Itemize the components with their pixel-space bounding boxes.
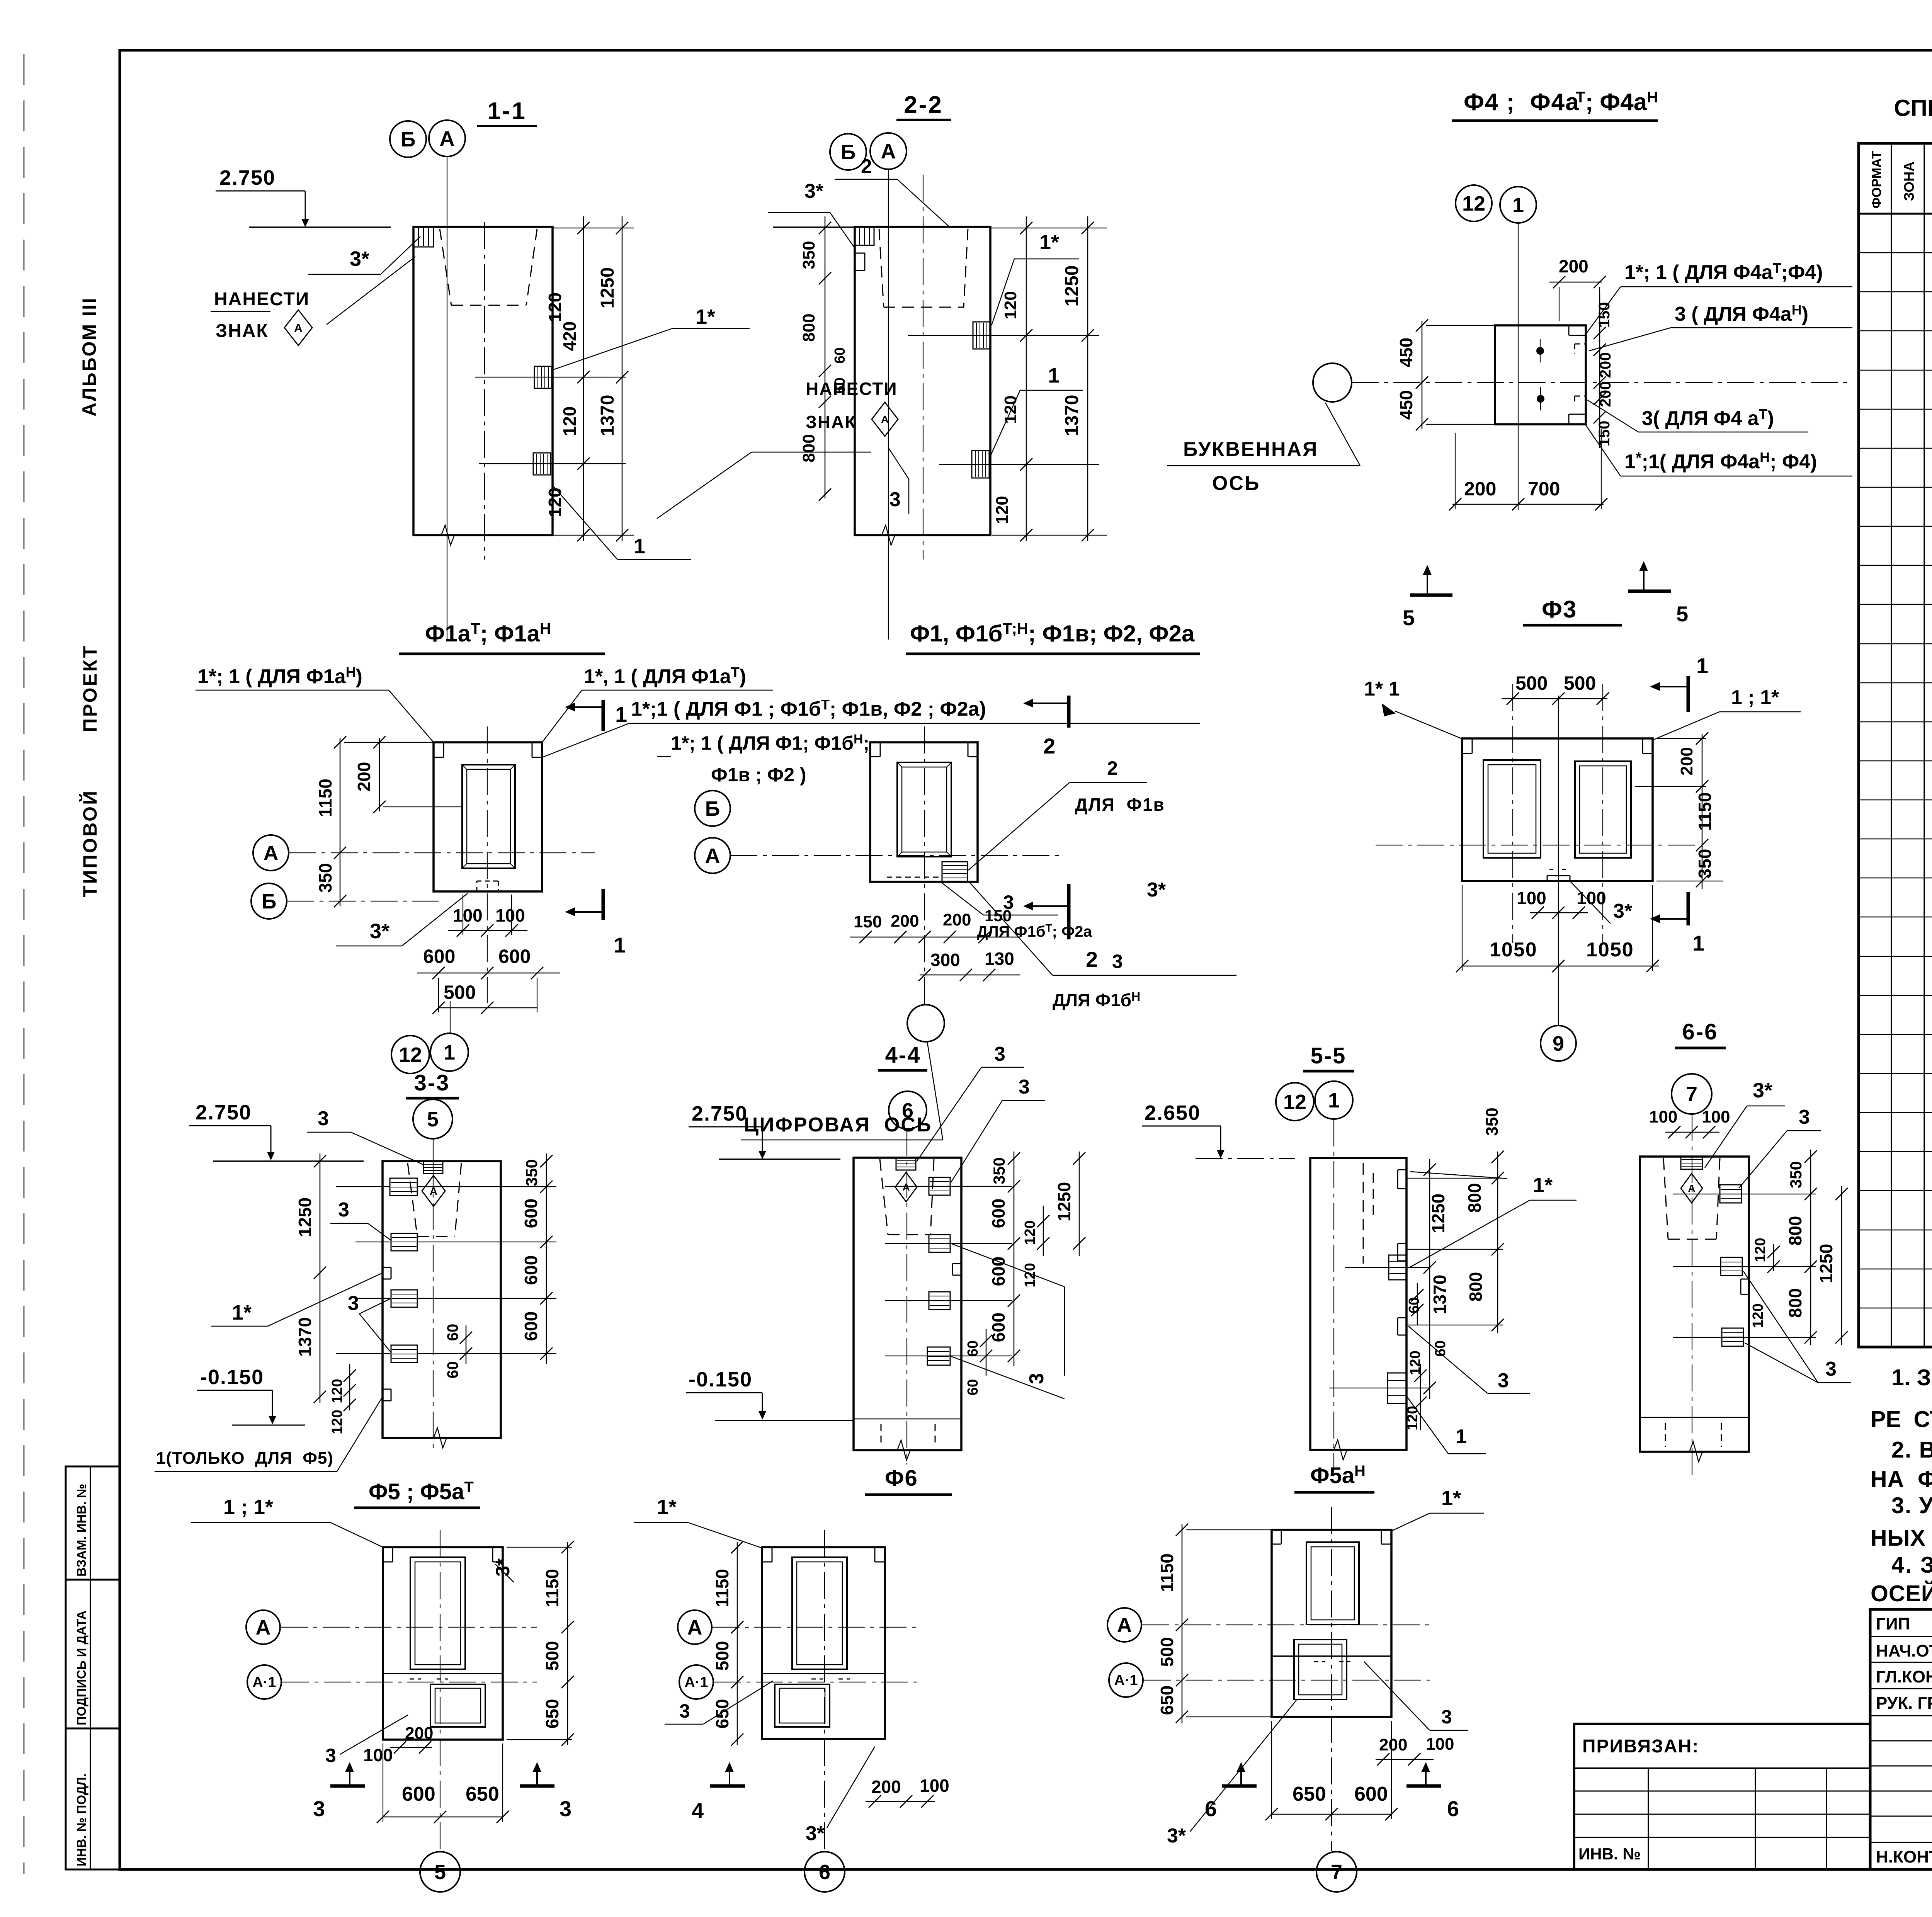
letter axis line (2-2) bbox=[888, 169, 889, 640]
svg-text:ОСЬ: ОСЬ bbox=[1212, 472, 1260, 495]
svg-text:200: 200 bbox=[871, 1777, 901, 1797]
svg-text:1 ; 1*: 1 ; 1* bbox=[1731, 686, 1779, 709]
svg-text:800: 800 bbox=[799, 313, 818, 342]
break squiggle (5-5) bbox=[1325, 1440, 1356, 1460]
svg-text:600: 600 bbox=[988, 1199, 1009, 1228]
plan Ф4 dashed edge marks bbox=[1575, 344, 1586, 345]
svg-text:1(ТОЛЬКО ДЛЯ Ф5): 1(ТОЛЬКО ДЛЯ Ф5) bbox=[156, 1449, 333, 1468]
plan Ф5ан centerline bbox=[1331, 1507, 1332, 1851]
sidebar box Инв.№ подл. bbox=[66, 1728, 120, 1869]
title block staff row bbox=[1870, 1740, 1932, 1742]
spec table row line 21 bbox=[1859, 1034, 1932, 1035]
svg-text:1*: 1* bbox=[657, 1495, 677, 1519]
svg-text:А·1: А·1 bbox=[1114, 1672, 1138, 1689]
axis circle А (plan2) bbox=[695, 838, 730, 873]
left dims (plan1) bbox=[340, 738, 341, 906]
svg-text:500: 500 bbox=[444, 981, 476, 1003]
svg-text:120: 120 bbox=[1001, 395, 1020, 424]
spec table row line 6 bbox=[1859, 448, 1932, 449]
plan Ф5ан divider bbox=[1272, 1655, 1391, 1657]
svg-text:3: 3 bbox=[325, 1745, 336, 1766]
axis circle 5 (3-3) bbox=[413, 1099, 452, 1139]
numeric axis line (2-2) bbox=[923, 175, 923, 560]
svg-text:600: 600 bbox=[498, 946, 531, 967]
svg-text:Ф4 ; Ф4а: Ф4 ; Ф4а bbox=[1464, 89, 1580, 116]
svg-text:1150: 1150 bbox=[315, 779, 335, 817]
spec table row line 24 bbox=[1859, 1151, 1932, 1152]
svg-text:НАНЕСТИ: НАНЕСТИ bbox=[214, 289, 310, 310]
svg-text:120: 120 bbox=[1405, 1406, 1421, 1430]
svg-text:ЗОНА: ЗОНА bbox=[1901, 162, 1917, 201]
привязан row bbox=[1574, 1837, 1870, 1838]
svg-text:350: 350 bbox=[315, 863, 335, 893]
plan Ф4 outline bbox=[1495, 325, 1586, 424]
svg-text:1*; 1 ( ДЛЯ Ф1аН): 1*; 1 ( ДЛЯ Ф1аН) bbox=[197, 664, 362, 688]
axis circle Б (section 1-1) bbox=[390, 121, 426, 157]
plan Ф5 divider bbox=[383, 1673, 503, 1674]
spec table row line 15 bbox=[1859, 799, 1932, 801]
svg-text:150: 150 bbox=[1596, 421, 1613, 447]
svg-text:1. ЗАКЛАДНЫЕ, ОТМЕЧЕННЫЕ ЗНАКО: 1. ЗАКЛАДНЫЕ, ОТМЕЧЕННЫЕ ЗНАКОМ ,* ПРИВА… bbox=[1891, 1365, 1932, 1390]
svg-text:350: 350 bbox=[799, 241, 818, 269]
edge notch (6-6) bbox=[1741, 1279, 1749, 1280]
spec table outer border bbox=[1859, 143, 1932, 1347]
section marks 2 (plan2 right) bbox=[1023, 696, 1069, 758]
plan Ф6 cup2 outer bbox=[775, 1684, 830, 1727]
left trim dash-dot line bbox=[24, 54, 25, 1874]
spec table row line 20 bbox=[1859, 995, 1932, 996]
title block staff row bbox=[1870, 1715, 1932, 1716]
svg-text:1: 1 bbox=[1048, 364, 1060, 387]
axis circle А-1 (Ф5ан) bbox=[1109, 1663, 1143, 1697]
svg-text:3*: 3* bbox=[1753, 1079, 1772, 1102]
spec table row line 11 bbox=[1859, 643, 1932, 645]
ground dash line (5-5) bbox=[1196, 1158, 1295, 1159]
svg-text:Б: Б bbox=[705, 797, 720, 820]
svg-text:5: 5 bbox=[427, 1108, 439, 1131]
svg-text:600: 600 bbox=[988, 1313, 1009, 1342]
column outline (3-3) bbox=[383, 1161, 501, 1438]
svg-text:1: 1 bbox=[1328, 1089, 1340, 1112]
svg-text:Б: Б bbox=[401, 128, 416, 151]
spec table row line 12 bbox=[1859, 682, 1932, 684]
svg-text:3*: 3* bbox=[1147, 879, 1166, 901]
axis circle А (2-2) bbox=[870, 133, 906, 169]
svg-text:6: 6 bbox=[902, 1099, 913, 1122]
svg-text:800: 800 bbox=[1785, 1288, 1805, 1318]
svg-text:500: 500 bbox=[1515, 672, 1548, 694]
svg-text:650: 650 bbox=[542, 1699, 562, 1729]
svg-text:6: 6 bbox=[1447, 1796, 1459, 1821]
svg-text:1*;1( ДЛЯ Ф4аН; Ф4): 1*;1( ДЛЯ Ф4аН; Ф4) bbox=[1624, 449, 1817, 473]
outer dim 1250 (4-4) bbox=[1079, 1152, 1080, 1256]
svg-text:1370: 1370 bbox=[597, 395, 618, 436]
plan Ф6 divider bbox=[762, 1673, 885, 1674]
letter axis circle (Ф4) bbox=[1313, 363, 1352, 402]
svg-text:ФОРМАТ: ФОРМАТ bbox=[1869, 151, 1884, 209]
dim 60/60 (4-4) bbox=[986, 1329, 987, 1376]
section mark 6 left (Ф5ан) bbox=[1205, 1762, 1257, 1821]
svg-text:ТИПОВОЙ: ТИПОВОЙ bbox=[79, 789, 101, 897]
svg-text:3*: 3* bbox=[370, 920, 389, 943]
edge notches (5-5) bbox=[1398, 1169, 1406, 1170]
axis circle 7 (6-6) bbox=[1672, 1074, 1712, 1114]
svg-text:3-3: 3-3 bbox=[414, 1070, 450, 1095]
svg-text:А: А bbox=[256, 1616, 271, 1639]
plan 2 embedded plate (Ф1в) bbox=[942, 862, 968, 882]
dimension line inner (1-1) bbox=[583, 216, 584, 541]
svg-text:12: 12 bbox=[1283, 1090, 1306, 1114]
plan 1 corner notches bbox=[434, 757, 444, 758]
svg-text:ПРОЕКТ: ПРОЕКТ bbox=[79, 645, 101, 732]
plan 2 corner notches bbox=[870, 756, 880, 757]
svg-text:500: 500 bbox=[1157, 1637, 1177, 1667]
axis line (4-4) bbox=[906, 1129, 907, 1465]
axis line (6-6) bbox=[1692, 1114, 1692, 1480]
svg-text:Б: Б bbox=[262, 890, 277, 913]
plan Ф5 centerline bbox=[440, 1530, 440, 1851]
svg-text:120: 120 bbox=[545, 488, 565, 517]
svg-text:А: А bbox=[294, 322, 303, 335]
svg-text:НА ФУНДАМЕНТЫ ДАНА: НА ФУНДАМЕНТЫ ДАНА НА ЛИСТЕ 12 . bbox=[1871, 1466, 1932, 1492]
spec table row line 4 bbox=[1859, 370, 1932, 371]
svg-text:3: 3 bbox=[1003, 891, 1014, 913]
svg-text:5: 5 bbox=[434, 1861, 446, 1884]
svg-text:1050: 1050 bbox=[1586, 939, 1634, 961]
plan 2 centerline bbox=[924, 726, 925, 1005]
axis circle 9 (Ф3) bbox=[1541, 1026, 1576, 1061]
svg-text:9: 9 bbox=[1553, 1032, 1564, 1055]
plan Ф4 anchor dots bbox=[1536, 347, 1544, 355]
break squiggle (2-2) bbox=[873, 525, 904, 545]
svg-text:3: 3 bbox=[679, 1700, 690, 1722]
dim line right (4-4) bbox=[1014, 1152, 1015, 1366]
svg-text:1*: 1* bbox=[1039, 231, 1059, 254]
plate extensions (3-3) bbox=[336, 1186, 390, 1187]
svg-text:500: 500 bbox=[1564, 672, 1596, 694]
dashed marks right top (5-5) bbox=[1373, 1173, 1374, 1221]
svg-text:420: 420 bbox=[560, 321, 580, 351]
break squiggle (1-1) bbox=[433, 525, 464, 545]
svg-text:7: 7 bbox=[1331, 1861, 1342, 1884]
svg-text:200: 200 bbox=[1464, 478, 1496, 500]
svg-text:120: 120 bbox=[545, 293, 565, 322]
plan 2 axis А horizontal bbox=[730, 855, 1059, 856]
corner plate (2-2) bbox=[855, 227, 874, 245]
привязан row bbox=[1574, 1791, 1870, 1792]
svg-text:2-2: 2-2 bbox=[904, 92, 943, 118]
svg-text:100: 100 bbox=[495, 905, 525, 925]
svg-text:120: 120 bbox=[1022, 1220, 1038, 1245]
svg-text:3: 3 bbox=[889, 488, 901, 511]
plan Ф5 cup1 outer bbox=[410, 1557, 465, 1669]
svg-text:Ф1в ; Ф2 ): Ф1в ; Ф2 ) bbox=[711, 764, 806, 786]
spec table row line 28 bbox=[1859, 1308, 1932, 1309]
axis circle 1 (5-5) bbox=[1315, 1081, 1353, 1119]
axis А horizontal (plan1) bbox=[289, 852, 595, 853]
svg-text:1: 1 bbox=[1456, 1425, 1467, 1448]
svg-text:120: 120 bbox=[329, 1379, 345, 1403]
title block staff row bbox=[1870, 1842, 1932, 1843]
svg-text:7: 7 bbox=[1686, 1083, 1697, 1106]
svg-text:3: 3 bbox=[313, 1796, 325, 1821]
plate extensions (5-5) bbox=[1345, 1267, 1430, 1268]
inner dim line right (2-2) bbox=[1026, 216, 1027, 541]
svg-text:3*: 3* bbox=[492, 1558, 514, 1577]
svg-text:60: 60 bbox=[832, 378, 848, 394]
svg-text:ДЛЯ Ф1бТ; Ф2а: ДЛЯ Ф1бТ; Ф2а bbox=[977, 922, 1092, 940]
svg-text:650: 650 bbox=[1293, 1783, 1326, 1805]
embedded plate 1 (2-2) bbox=[972, 451, 989, 478]
svg-text:60: 60 bbox=[832, 347, 848, 364]
axis circle 5 bottom (Ф5) bbox=[420, 1852, 460, 1892]
svg-text:800: 800 bbox=[1464, 1183, 1485, 1213]
axis circle Б (2-2) bbox=[830, 134, 866, 170]
spec table row line 22 bbox=[1859, 1073, 1932, 1074]
spec table row line 10 bbox=[1859, 604, 1932, 605]
svg-text:2.750: 2.750 bbox=[196, 1101, 252, 1124]
svg-text:700: 700 bbox=[1528, 478, 1560, 500]
numeric axis line (Ф4) bbox=[1518, 223, 1519, 510]
svg-text:2: 2 bbox=[1086, 947, 1098, 971]
axis circle А-1 (Ф6) bbox=[679, 1665, 713, 1699]
outer dim line right (2-2) bbox=[1087, 216, 1088, 541]
plan Ф3 corner notches bbox=[1462, 753, 1472, 754]
svg-text:1* 1: 1* 1 bbox=[1364, 678, 1400, 700]
title block staff row bbox=[1870, 1791, 1932, 1792]
embedded plate 1* (2-2) bbox=[973, 322, 990, 349]
svg-text:350: 350 bbox=[990, 1157, 1008, 1184]
svg-text:1250: 1250 bbox=[1816, 1244, 1836, 1283]
svg-text:3: 3 bbox=[318, 1107, 329, 1130]
svg-text:3: 3 bbox=[1112, 951, 1123, 972]
svg-text:1250: 1250 bbox=[295, 1197, 315, 1237]
svg-text:СПЕЦИФИКАЦИЯ ДОПОЛНИТЕЛЬНЫХ: СПЕЦИФИКАЦИЯ ДОПОЛНИТЕЛЬНЫХ ЗАКЛАДНЫХ ДЕ… bbox=[1894, 95, 1932, 121]
svg-text:Ф5 ; Ф5аТ: Ф5 ; Ф5аТ bbox=[369, 1479, 474, 1504]
column outline (5-5) bbox=[1310, 1158, 1406, 1450]
dim 450/450 (Ф4) bbox=[1422, 321, 1423, 429]
svg-text:А: А bbox=[903, 1181, 910, 1193]
svg-text:350: 350 bbox=[1695, 849, 1715, 879]
ground line (3-3) bbox=[213, 1160, 364, 1162]
svg-text:А: А bbox=[264, 842, 279, 865]
dim 120/120 (5-5) bbox=[1420, 1364, 1421, 1430]
spec table row line 9 bbox=[1859, 565, 1932, 566]
plan 2 outline bbox=[870, 742, 978, 882]
svg-text:2: 2 bbox=[1043, 734, 1055, 758]
spec table row line 26 bbox=[1859, 1230, 1932, 1231]
svg-text:1250: 1250 bbox=[597, 267, 618, 309]
svg-text:150: 150 bbox=[1596, 302, 1613, 328]
diamond А (3-3) bbox=[422, 1175, 445, 1206]
plan Ф3 outline bbox=[1462, 738, 1653, 881]
svg-text:120: 120 bbox=[329, 1410, 345, 1434]
svg-text:НАЧ.ОТД.: НАЧ.ОТД. bbox=[1876, 1641, 1932, 1660]
section marks 1 right (Ф3) bbox=[1650, 653, 1708, 712]
dim 120 (6-6) bbox=[1773, 1244, 1774, 1271]
svg-text:А: А bbox=[881, 140, 896, 163]
привязан col bbox=[1826, 1768, 1827, 1869]
svg-text:1370: 1370 bbox=[1430, 1275, 1450, 1314]
svg-text:200: 200 bbox=[354, 762, 374, 792]
dimension line outer (1-1) bbox=[622, 216, 623, 541]
plan 1 bottom dashed plate bbox=[476, 881, 478, 891]
svg-text:120: 120 bbox=[993, 496, 1012, 524]
-0.150 line (6-6) bbox=[1640, 1417, 1749, 1418]
svg-text:Т; Ф4аН: Т; Ф4аН bbox=[1576, 89, 1658, 116]
spec table row line 13 bbox=[1859, 721, 1932, 723]
column outline (1-1) bbox=[413, 227, 553, 535]
svg-text:600: 600 bbox=[1354, 1783, 1388, 1805]
plate extensions (4-4) bbox=[885, 1186, 1012, 1187]
plates (6-6) bbox=[1720, 1185, 1742, 1203]
embedded plate 1* (1-1) bbox=[534, 366, 552, 388]
svg-text:3 ( ДЛЯ Ф4аН): 3 ( ДЛЯ Ф4аН) bbox=[1675, 302, 1808, 325]
plan Ф5ан corner notches bbox=[1272, 1544, 1281, 1545]
svg-text:1: 1 bbox=[614, 933, 626, 957]
svg-text:650: 650 bbox=[1157, 1686, 1177, 1715]
svg-text:Ф1, Ф1бТ;Н; Ф1в; Ф2, Ф2а: Ф1, Ф1бТ;Н; Ф1в; Ф2, Ф2а bbox=[910, 620, 1195, 646]
svg-text:100: 100 bbox=[1426, 1735, 1454, 1754]
svg-text:500: 500 bbox=[712, 1641, 732, 1671]
axis line (5-5) bbox=[1333, 1119, 1334, 1468]
top plate (4-4) bbox=[896, 1158, 916, 1170]
svg-text:200: 200 bbox=[943, 910, 971, 929]
diamond А (6-6) bbox=[1681, 1174, 1702, 1203]
svg-text:1: 1 bbox=[634, 535, 645, 558]
svg-text:ПРИВЯЗАН:: ПРИВЯЗАН: bbox=[1582, 1736, 1699, 1757]
top plate (3-3) bbox=[423, 1161, 443, 1174]
svg-text:1150: 1150 bbox=[712, 1569, 732, 1607]
axis circle А (Ф5ан) bbox=[1107, 1608, 1141, 1642]
svg-text:200: 200 bbox=[891, 912, 919, 930]
svg-text:60: 60 bbox=[444, 1361, 461, 1379]
corner plate 3* (1-1) bbox=[413, 227, 434, 247]
spec table column line 1 bbox=[1891, 143, 1892, 1347]
spec table row line 14 bbox=[1859, 760, 1932, 762]
svg-text:200: 200 bbox=[1677, 747, 1696, 775]
svg-text:350: 350 bbox=[1483, 1107, 1502, 1136]
svg-text:12: 12 bbox=[399, 1043, 422, 1067]
spec table row line 18 bbox=[1859, 917, 1932, 918]
break squiggle (3-3) bbox=[425, 1428, 456, 1448]
svg-text:200: 200 bbox=[405, 1724, 433, 1743]
plates right edge (5-5) bbox=[1389, 1255, 1406, 1280]
section mark 6 right (Ф5ан) bbox=[1406, 1762, 1459, 1821]
привязан box bbox=[1574, 1724, 1870, 1869]
svg-text:1: 1 bbox=[1696, 653, 1708, 678]
axis circle А-1 (Ф5) bbox=[247, 1665, 281, 1699]
axis circle 6 bottom (Ф6) bbox=[804, 1852, 845, 1892]
svg-text:1250: 1250 bbox=[1062, 265, 1082, 307]
svg-text:3*: 3* bbox=[804, 180, 824, 202]
svg-text:А: А bbox=[440, 127, 455, 150]
svg-text:3: 3 bbox=[994, 1043, 1005, 1065]
right vertical dim (Ф4) bbox=[1599, 294, 1600, 448]
axis Б horizontal (plan1) bbox=[287, 901, 439, 902]
svg-text:600: 600 bbox=[988, 1257, 1009, 1286]
plan Ф3 cup right outer bbox=[1575, 761, 1631, 858]
plan Ф5 outline bbox=[383, 1547, 503, 1740]
plan 1 cup inner bbox=[467, 769, 510, 864]
svg-text:1: 1 bbox=[615, 702, 627, 726]
plan Ф5ан outline bbox=[1272, 1530, 1391, 1717]
cup hidden lines (2-2) bbox=[879, 229, 884, 307]
left dimension line (2-2) bbox=[825, 216, 826, 498]
svg-text:200: 200 bbox=[1597, 352, 1614, 378]
svg-text:Ф1аТ; Ф1аН: Ф1аТ; Ф1аН bbox=[425, 620, 551, 646]
svg-text:800: 800 bbox=[1785, 1216, 1805, 1246]
svg-text:1*: 1* bbox=[1441, 1487, 1461, 1510]
section mark 5 left (Ф4) bbox=[1403, 565, 1452, 630]
svg-text:3: 3 bbox=[1026, 1373, 1048, 1384]
section mark 3 left (Ф5) bbox=[313, 1762, 365, 1821]
plan 1 outline bbox=[434, 742, 542, 891]
привязан col bbox=[1648, 1768, 1649, 1869]
svg-text:500: 500 bbox=[542, 1641, 562, 1671]
axis lines (Ф6) bbox=[713, 1627, 920, 1628]
plan Ф3 cup right inner bbox=[1580, 766, 1626, 853]
svg-text:ВЗАМ. ИНВ. №: ВЗАМ. ИНВ. № bbox=[74, 1484, 88, 1577]
svg-text:А·1: А·1 bbox=[252, 1674, 276, 1691]
svg-text:Ф3: Ф3 bbox=[1542, 596, 1577, 623]
svg-text:300: 300 bbox=[930, 950, 960, 970]
svg-text:Н.КОНТР.: Н.КОНТР. bbox=[1876, 1847, 1932, 1866]
spec table column line 2 bbox=[1923, 143, 1925, 1347]
plan 1 cup outer bbox=[462, 765, 515, 868]
svg-text:ДЛЯ Ф1бН: ДЛЯ Ф1бН bbox=[1053, 990, 1140, 1010]
svg-text:600: 600 bbox=[521, 1255, 541, 1285]
right dim line (3-3) bbox=[546, 1153, 547, 1364]
plan Ф6 corner notches bbox=[762, 1561, 772, 1563]
column outline (2-2) bbox=[855, 227, 990, 535]
plates right-of-center (4-4) bbox=[929, 1177, 950, 1195]
svg-text:ЗНАК: ЗНАК bbox=[806, 412, 856, 432]
plan Ф6 outline bbox=[762, 1547, 885, 1739]
plan 1 centerline vertical bbox=[487, 726, 488, 1003]
spec table row line 5 bbox=[1859, 409, 1932, 410]
svg-text:ИНВ. №: ИНВ. № bbox=[1578, 1845, 1641, 1863]
spec table row line 23 bbox=[1859, 1112, 1932, 1113]
edge notch (2-2) bbox=[855, 253, 865, 254]
left dims (Ф6) bbox=[737, 1542, 738, 1745]
svg-text:ГЛ.КОНСТР: ГЛ.КОНСТР bbox=[1876, 1667, 1932, 1686]
hidden marks (Ф5ан) bbox=[1314, 1661, 1325, 1662]
section mark 5 right (Ф4) bbox=[1628, 561, 1688, 626]
svg-text:60: 60 bbox=[1406, 1297, 1422, 1313]
svg-text:6-6: 6-6 bbox=[1682, 1019, 1718, 1044]
привязан row bbox=[1574, 1814, 1870, 1815]
svg-text:2.650: 2.650 bbox=[1145, 1101, 1201, 1124]
right dims (Ф3) bbox=[1702, 734, 1703, 889]
svg-text:60: 60 bbox=[965, 1340, 981, 1357]
svg-text:1*; 1 ( ДЛЯ Ф1; Ф1бН;: 1*; 1 ( ДЛЯ Ф1; Ф1бН; bbox=[671, 732, 869, 754]
svg-text:2. ВЫБОРКА ДОПОЛНИТЕЛЬНЫХ: 2. ВЫБОРКА ДОПОЛНИТЕЛЬНЫХ ЗАКЛАДНЫХ ДЕТА… bbox=[1891, 1437, 1932, 1463]
svg-text:130: 130 bbox=[985, 949, 1014, 969]
svg-text:Ф6: Ф6 bbox=[885, 1466, 918, 1491]
axis circle 12 (5-5) bbox=[1276, 1083, 1314, 1121]
svg-text:120: 120 bbox=[1407, 1351, 1423, 1375]
svg-text:3*: 3* bbox=[1613, 900, 1633, 922]
spec table row line 2 bbox=[1859, 291, 1932, 293]
svg-text:3. УКАЗАНИЯ ПО АНТИКОРРОЗИ: 3. УКАЗАНИЯ ПО АНТИКОРРОЗИОННОЙ ЗАЩИТЕ З… bbox=[1891, 1492, 1932, 1518]
section mark 4 left (Ф6) bbox=[692, 1762, 745, 1823]
-0.150 level line (4-4) bbox=[854, 1419, 961, 1420]
svg-text:НЫХ ДЕТАЛЕЙ СМ. АР,: НЫХ ДЕТАЛЕЙ СМ. АР, ЛИСТ 2. bbox=[1871, 1525, 1932, 1551]
sidebar box Взам.инв.№ bbox=[66, 1466, 120, 1580]
plan Ф5 cup2 inner bbox=[435, 1688, 481, 1723]
svg-text:12: 12 bbox=[1462, 192, 1485, 215]
